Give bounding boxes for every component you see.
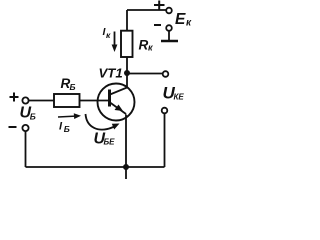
wire UB minus down left side bbox=[25, 131, 27, 167]
transistor base bar bbox=[108, 90, 111, 107]
node collector junction bbox=[124, 70, 130, 76]
EK minus stub bar bbox=[161, 40, 178, 43]
transistor VT1 bbox=[98, 84, 135, 121]
resistor RB bbox=[54, 94, 80, 107]
resistor RK bbox=[121, 31, 133, 57]
minus sign of EK bbox=[154, 24, 161, 26]
wire emitter down to bottom rail bbox=[125, 115, 127, 180]
svg-text:к: к bbox=[148, 43, 153, 53]
svg-text:к: к bbox=[106, 30, 111, 40]
svg-text:Б: Б bbox=[64, 124, 70, 134]
terminal UKE bottom bbox=[162, 108, 168, 114]
terminal UB minus bbox=[22, 125, 28, 131]
wire vertical drop from top rail to RK bbox=[126, 10, 128, 31]
wire bottom rail bbox=[26, 166, 165, 168]
voltage arrow UBE arc bbox=[86, 114, 115, 130]
current IK arrow bbox=[114, 32, 116, 48]
svg-text:БЕ: БЕ bbox=[104, 138, 116, 147]
minus sign of UB bbox=[9, 126, 17, 128]
terminal EK minus bbox=[166, 25, 172, 31]
transistor emitter lead bbox=[110, 103, 126, 115]
svg-text:Б: Б bbox=[30, 112, 36, 122]
transistor emitter arrow bbox=[115, 105, 124, 112]
svg-text:КЕ: КЕ bbox=[174, 93, 185, 102]
svg-text:VT1: VT1 bbox=[99, 66, 123, 81]
current IB arrow bbox=[58, 116, 78, 117]
wire collector node to UKE top terminal bbox=[127, 73, 163, 75]
EK minus stub wire bbox=[168, 31, 170, 41]
wire UB plus terminal to RB bbox=[29, 100, 54, 102]
node emitter junction bbox=[123, 164, 129, 170]
terminal EK plus bbox=[166, 8, 172, 14]
svg-text:R: R bbox=[139, 38, 149, 53]
terminal UKE top bbox=[163, 71, 169, 77]
plus sign of EK bbox=[154, 1, 165, 10]
terminal UB plus bbox=[22, 97, 28, 103]
svg-text:E: E bbox=[175, 11, 186, 28]
wire RK bottom to collector node bbox=[126, 57, 128, 73]
wire UKE bottom terminal down to bottom rail bbox=[164, 113, 166, 167]
svg-text:Б: Б bbox=[70, 82, 76, 92]
wire top rail to EK plus terminal bbox=[127, 9, 166, 11]
transistor collector lead bbox=[110, 73, 127, 95]
plus sign of UB bbox=[10, 93, 19, 102]
wire base lead bbox=[80, 100, 109, 102]
